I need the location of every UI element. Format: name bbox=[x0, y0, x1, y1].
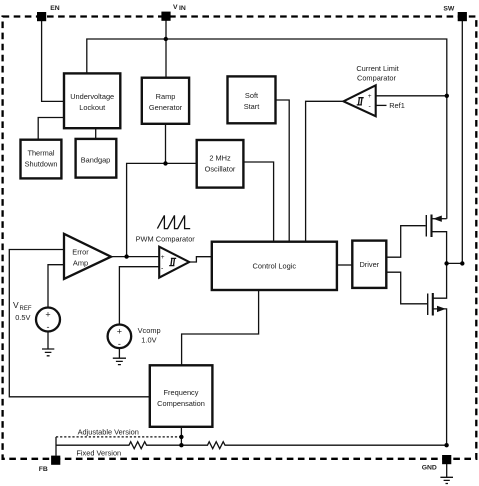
svg-text:Amp: Amp bbox=[73, 259, 88, 268]
svg-text:PWM Comparator: PWM Comparator bbox=[136, 234, 196, 243]
svg-text:Ref1: Ref1 bbox=[389, 101, 405, 110]
svg-text:IN: IN bbox=[179, 5, 186, 12]
svg-text:V: V bbox=[173, 4, 178, 11]
svg-text:Frequency: Frequency bbox=[164, 388, 199, 397]
svg-text:V: V bbox=[13, 300, 19, 310]
svg-text:Adjustable Version: Adjustable Version bbox=[78, 427, 139, 436]
svg-text:Generator: Generator bbox=[149, 103, 183, 112]
svg-text:Fixed Version: Fixed Version bbox=[76, 448, 121, 457]
svg-text:Error: Error bbox=[72, 248, 89, 257]
svg-text:Driver: Driver bbox=[359, 260, 379, 269]
svg-text:Comparator: Comparator bbox=[357, 74, 397, 83]
svg-text:FB: FB bbox=[39, 466, 48, 473]
svg-text:REF: REF bbox=[20, 306, 32, 312]
svg-text:-: - bbox=[118, 339, 121, 349]
svg-text:Soft: Soft bbox=[245, 91, 258, 100]
svg-text:Shutdown: Shutdown bbox=[25, 160, 58, 169]
svg-text:EN: EN bbox=[50, 5, 60, 12]
svg-text:SW: SW bbox=[443, 6, 455, 13]
svg-text:Lockout: Lockout bbox=[79, 103, 105, 112]
svg-text:Start: Start bbox=[244, 102, 260, 111]
svg-text:Thermal: Thermal bbox=[27, 149, 54, 158]
svg-text:0.5V: 0.5V bbox=[15, 313, 30, 322]
svg-text:Compensation: Compensation bbox=[157, 399, 205, 408]
svg-text:+: + bbox=[117, 326, 122, 336]
svg-text:GND: GND bbox=[422, 465, 437, 472]
svg-text:Control Logic: Control Logic bbox=[253, 262, 297, 271]
svg-text:Undervoltage: Undervoltage bbox=[70, 92, 114, 101]
svg-text:Vcomp: Vcomp bbox=[138, 326, 161, 335]
svg-text:Ramp: Ramp bbox=[156, 92, 176, 101]
svg-text:-: - bbox=[47, 322, 50, 332]
svg-text:+: + bbox=[161, 254, 165, 261]
svg-text:Oscillator: Oscillator bbox=[205, 165, 236, 174]
svg-text:1.0V: 1.0V bbox=[141, 335, 156, 344]
svg-text:2 MHz: 2 MHz bbox=[209, 154, 231, 163]
svg-text:Bandgap: Bandgap bbox=[81, 156, 111, 165]
svg-text:+: + bbox=[45, 310, 50, 320]
svg-text:Current Limit: Current Limit bbox=[356, 64, 398, 73]
svg-text:+: + bbox=[368, 93, 372, 100]
